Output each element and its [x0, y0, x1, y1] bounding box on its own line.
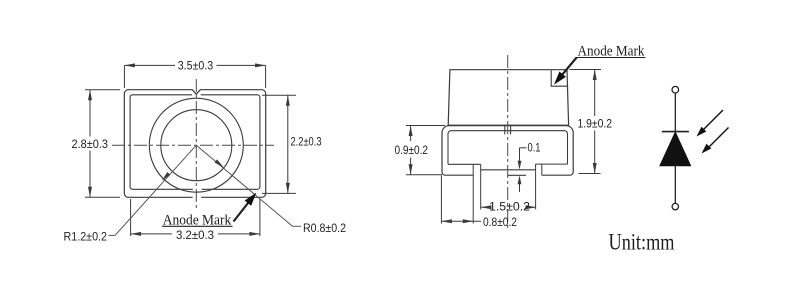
- side view: bottom recess line (standoff): [481, 169, 536, 171]
- side view: top body block: [448, 70, 568, 126]
- photodiode cathode bar: [662, 131, 689, 133]
- side view: mold gate ticks on flange top: [504, 125, 506, 135]
- incident light ray arrow 2: [702, 128, 729, 154]
- dimension 1.9±0.2 (overall height, right): [570, 70, 613, 174]
- top view: lens inner circle: [161, 110, 232, 181]
- side view: flange inner line and bottom shelf: [448, 131, 568, 165]
- dimension 3.5±0.3 (top width): [124, 60, 265, 88]
- top view: horizontal centerline: [112, 144, 274, 146]
- wire: top terminal to cathode bar: [674, 93, 676, 132]
- svg-text:3.5±0.3: 3.5±0.3: [178, 60, 214, 72]
- dimension 2.2±0.3 (body height, right): [262, 95, 322, 193]
- incident light ray arrow 1: [697, 110, 724, 137]
- anode mark label (side view) with thick arrow: [554, 44, 646, 85]
- top view: lens outer circle: [149, 98, 243, 192]
- top view: inner body outline: [130, 95, 260, 190]
- svg-text:R1.2±0.2: R1.2±0.2: [64, 231, 108, 243]
- svg-text:1.9±0.2: 1.9±0.2: [578, 119, 613, 131]
- side view: lead step verticals / extension lines: [472, 164, 474, 223]
- dimension 2.8±0.3 (overall height, left): [72, 90, 121, 198]
- wire: triangle to bottom terminal: [674, 166, 676, 204]
- svg-text:Unit:mm: Unit:mm: [609, 230, 675, 255]
- side view: anode mark notch square: [551, 70, 568, 86]
- leader + label R1.2±0.2 (outer lens radius): [64, 145, 197, 243]
- side view: vertical centerline: [507, 55, 509, 228]
- svg-text:R0.8±0.2: R0.8±0.2: [303, 223, 346, 235]
- leader + label R0.8±0.2 (inner lens radius): [196, 145, 346, 235]
- top view: vertical centerline: [195, 79, 197, 209]
- svg-text:3.2±0.3: 3.2±0.3: [176, 230, 214, 242]
- photodiode triangle (anode): [660, 132, 691, 166]
- top view: outer lead-frame outline: [124, 90, 265, 198]
- dimension 1.5±0.2 (inner lead span): [481, 202, 536, 214]
- side view: flange outer outline: [442, 126, 573, 176]
- svg-text:0.1: 0.1: [528, 143, 541, 155]
- photodiode symbol: top terminal circle: [672, 86, 679, 93]
- svg-text:1.5±0.2: 1.5±0.2: [489, 202, 530, 214]
- svg-text:2.2±0.3: 2.2±0.3: [291, 136, 322, 148]
- dimension 0.9±0.2 (flange height, left): [395, 126, 446, 175]
- dimension 0.8±0.2 (lead length): [441, 126, 517, 229]
- svg-text:2.8±0.3: 2.8±0.3: [72, 139, 109, 151]
- svg-text:0.8±0.2: 0.8±0.2: [483, 217, 517, 229]
- svg-text:0.9±0.2: 0.9±0.2: [395, 145, 429, 157]
- anode mark label (top view) with thick arrow to corner: [162, 193, 256, 229]
- photodiode bottom terminal circle: [672, 203, 678, 209]
- dimension 3.2±0.3 (body width, bottom): [131, 199, 260, 242]
- dimension 0.1 (standoff): [508, 143, 541, 192]
